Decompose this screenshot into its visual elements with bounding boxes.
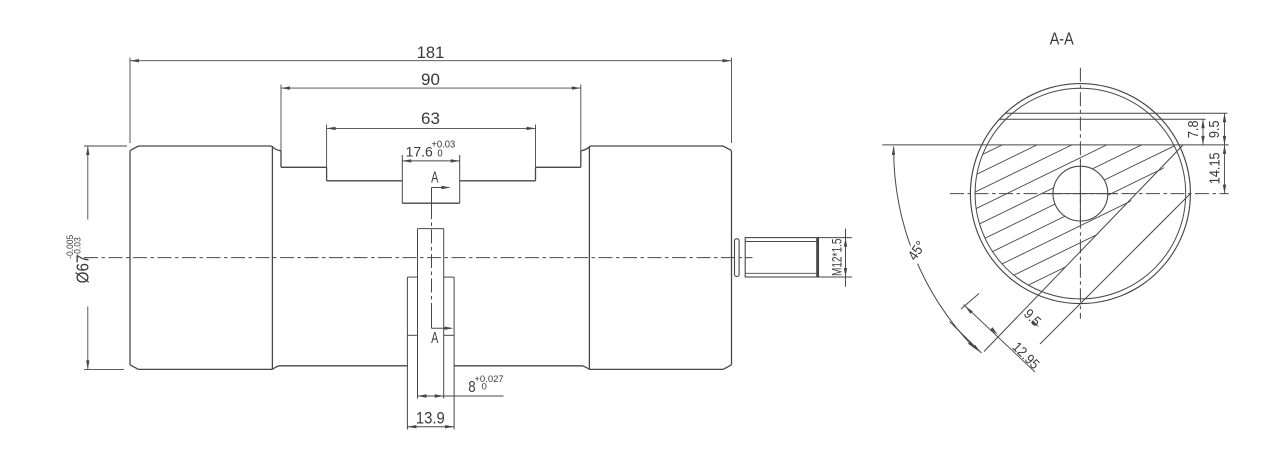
svg-text:A: A [431,168,439,186]
svg-text:63: 63 [421,109,440,128]
svg-text:0: 0 [437,148,443,160]
svg-text:Ø67: Ø67 [73,255,92,284]
svg-text:13.9: 13.9 [416,410,445,428]
svg-text:-0.03: -0.03 [72,237,83,256]
svg-text:+0.027: +0.027 [474,374,503,385]
svg-text:17.6: 17.6 [406,143,433,159]
svg-text:A-A: A-A [1050,29,1074,49]
svg-text:M12*1.5: M12*1.5 [829,238,845,276]
svg-text:9.5: 9.5 [1205,120,1222,138]
svg-text:7.8: 7.8 [1184,120,1201,138]
svg-text:14.15: 14.15 [1205,152,1222,184]
svg-text:0: 0 [482,382,487,393]
svg-text:+0.03: +0.03 [431,139,455,151]
svg-text:90: 90 [421,70,440,89]
svg-text:181: 181 [417,44,445,62]
svg-text:A: A [431,329,439,347]
